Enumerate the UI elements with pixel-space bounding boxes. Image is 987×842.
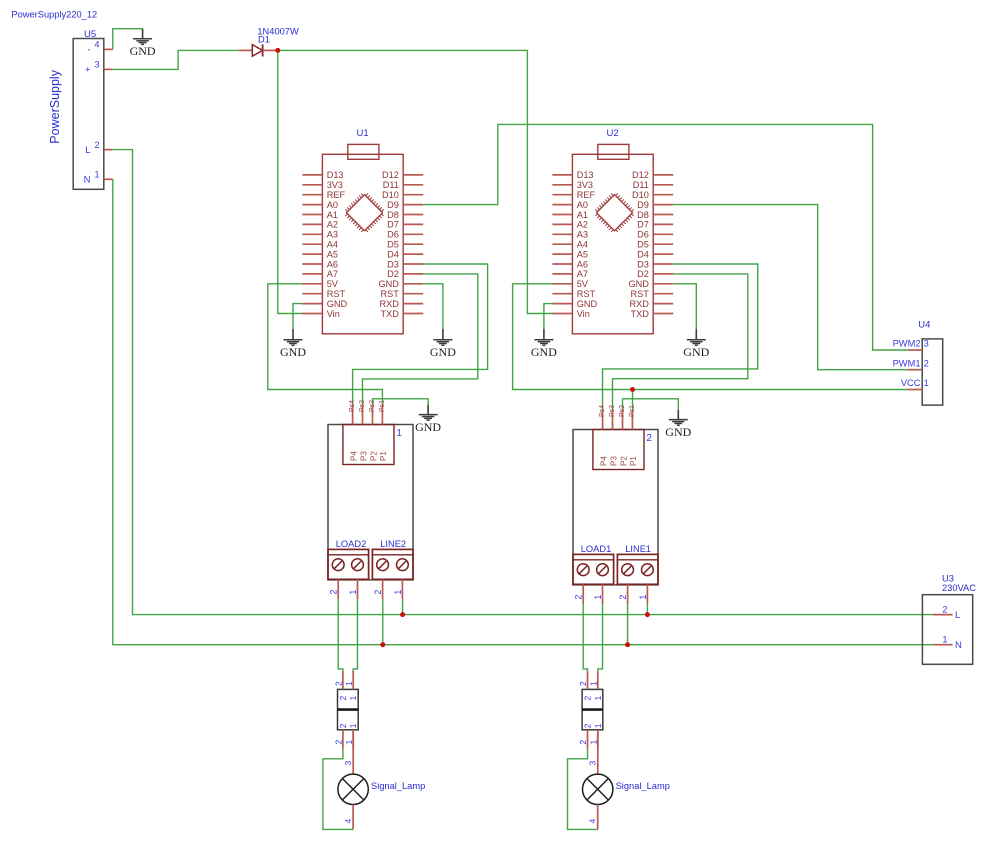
svg-text:GND: GND: [430, 345, 456, 359]
svg-text:1: 1: [393, 590, 403, 595]
svg-text:D9: D9: [637, 200, 649, 210]
svg-text:GND: GND: [665, 425, 691, 439]
svg-text:2: 2: [338, 723, 348, 728]
svg-text:2: 2: [94, 140, 99, 150]
svg-text:A2: A2: [577, 220, 588, 230]
svg-text:3: 3: [588, 761, 598, 766]
svg-text:1: 1: [942, 635, 947, 645]
wire U2 5V to U4 VCC: [513, 284, 908, 390]
wire module2 Ps2 to ground: [623, 399, 679, 410]
wire U1 D2 to module1 Ps3: [363, 274, 478, 405]
ground GND5 (under U2 right): [683, 329, 709, 359]
junction dot LINE2.1 on L: [400, 612, 405, 617]
svg-text:A6: A6: [577, 259, 588, 269]
svg-text:2: 2: [646, 433, 652, 444]
svg-text:P3: P3: [359, 451, 368, 461]
svg-text:1: 1: [348, 696, 358, 701]
relay module 1: [328, 400, 413, 599]
svg-text:PWM2: PWM2: [893, 339, 921, 349]
wire D1 cathode to U2 Vin: [278, 50, 553, 313]
svg-text:2: 2: [924, 358, 929, 368]
svg-text:2: 2: [578, 681, 588, 686]
wire U2 D9 to U4 PWM1: [673, 205, 908, 370]
svg-text:4: 4: [343, 819, 353, 824]
wire U5 pin3 (+) to diode D1 anode: [113, 50, 239, 69]
junction dot LINE1.2 on N: [625, 642, 630, 647]
svg-text:D5: D5: [387, 240, 399, 250]
svg-text:RXD: RXD: [379, 299, 399, 309]
svg-text:L: L: [85, 145, 90, 156]
svg-text:A1: A1: [577, 210, 588, 220]
wire U1 D3 to module1 Ps4: [353, 264, 488, 405]
svg-text:2: 2: [583, 696, 593, 701]
wire U2 GND(right) to ground: [673, 284, 696, 329]
svg-text:RST: RST: [327, 289, 346, 299]
svg-text:TXD: TXD: [631, 309, 650, 319]
svg-text:2: 2: [578, 740, 588, 745]
svg-text:D11: D11: [633, 180, 649, 190]
svg-text:A0: A0: [327, 200, 338, 210]
svg-text:1: 1: [348, 590, 358, 595]
svg-text:U5: U5: [84, 29, 96, 40]
svg-text:3: 3: [94, 60, 99, 70]
connector U4: [893, 319, 943, 405]
svg-text:2: 2: [329, 590, 339, 595]
svg-text:-: -: [87, 45, 90, 56]
svg-text:D13: D13: [577, 170, 594, 180]
svg-text:N: N: [955, 640, 962, 651]
svg-text:A6: A6: [327, 259, 338, 269]
svg-text:D8: D8: [637, 210, 649, 220]
fuse block 2: [578, 671, 603, 750]
svg-text:1: 1: [924, 378, 929, 388]
diode D1 1N4007W: [239, 44, 278, 56]
svg-text:3: 3: [924, 339, 929, 349]
svg-text:GND: GND: [327, 299, 348, 309]
svg-text:A5: A5: [327, 249, 338, 259]
svg-text:Ps4: Ps4: [599, 405, 606, 417]
svg-text:D3: D3: [387, 259, 399, 269]
svg-text:VCC: VCC: [901, 378, 921, 388]
svg-text:A5: A5: [577, 249, 588, 259]
svg-text:1: 1: [94, 170, 99, 180]
svg-text:U2: U2: [607, 128, 619, 139]
wire U5 L to U3 L: [113, 150, 933, 615]
junction dot VCC at module2 Ps1: [630, 387, 635, 392]
wire module2 LINE1.2 to N: [627, 604, 629, 645]
svg-text:REF: REF: [327, 190, 346, 200]
svg-text:RXD: RXD: [629, 299, 649, 309]
connector U3: [922, 574, 976, 665]
power supply U5 (PowerSupply220_12): [48, 29, 113, 189]
wire module1 LINE2.2 to N: [382, 599, 384, 645]
svg-text:REF: REF: [577, 190, 596, 200]
svg-text:D2: D2: [387, 269, 399, 279]
svg-text:D10: D10: [632, 190, 649, 200]
svg-text:D4: D4: [637, 249, 649, 259]
svg-text:D2: D2: [637, 269, 649, 279]
arduino nano U1: [302, 128, 423, 334]
svg-text:A7: A7: [327, 269, 338, 279]
svg-text:GND: GND: [378, 279, 399, 289]
signal lamp 2: [583, 730, 670, 830]
junction dot at D1 cathode: [275, 48, 280, 53]
ground GND3 (under U1 right): [430, 329, 456, 359]
junction dot LINE2.2 on N: [380, 642, 385, 647]
svg-text:1: 1: [344, 681, 354, 686]
svg-text:D12: D12: [632, 170, 649, 180]
wire U1 GND(right) to ground: [423, 284, 443, 329]
svg-text:U4: U4: [918, 319, 930, 330]
svg-text:RST: RST: [631, 289, 650, 299]
wire module1 LOAD2.2 to fuse1: [338, 599, 343, 671]
junction dot LINE1.1 on L: [645, 612, 650, 617]
svg-text:Ps2: Ps2: [369, 400, 376, 412]
wire VCC drop to module2 Ps1: [632, 390, 634, 411]
svg-text:N: N: [84, 175, 91, 186]
svg-text:D10: D10: [382, 190, 399, 200]
svg-text:Vin: Vin: [327, 309, 340, 319]
svg-text:D9: D9: [387, 200, 399, 210]
wire module1 LOAD2.1 to fuse1: [353, 599, 357, 671]
svg-text:LOAD2: LOAD2: [336, 539, 367, 549]
svg-text:A2: A2: [327, 220, 338, 230]
svg-text:D6: D6: [387, 230, 399, 240]
wire module2 LINE1.1 to L: [646, 604, 648, 615]
svg-text:1: 1: [638, 595, 648, 600]
wire module1 LINE2.1 to L: [402, 599, 404, 615]
svg-text:1: 1: [593, 723, 603, 728]
svg-text:GND: GND: [577, 299, 598, 309]
svg-text:2: 2: [373, 590, 383, 595]
svg-text:P1: P1: [629, 456, 638, 466]
svg-text:P2: P2: [619, 456, 628, 466]
wire U2 D2 to module2 Ps3: [613, 274, 748, 410]
svg-text:U3: U3: [942, 574, 954, 584]
svg-text:D7: D7: [637, 220, 649, 230]
wire U5 N to U3 N: [113, 179, 933, 644]
svg-text:D3: D3: [637, 259, 649, 269]
wire fuse1 pin2 to lamp1 pin4: [323, 749, 353, 829]
svg-text:Ps1: Ps1: [379, 400, 386, 412]
svg-text:RST: RST: [577, 289, 596, 299]
svg-text:Ps4: Ps4: [349, 400, 356, 412]
wire module2 LOAD1.1 to fuse2: [598, 604, 603, 671]
svg-text:1: 1: [593, 595, 603, 600]
svg-text:3V3: 3V3: [327, 180, 343, 190]
svg-text:A4: A4: [327, 240, 338, 250]
wire U2 D3 to module2 Ps4: [603, 264, 758, 410]
ground GND4 (under U2 left): [531, 329, 557, 359]
svg-text:LINE1: LINE1: [625, 544, 651, 554]
svg-text:1: 1: [344, 740, 354, 745]
svg-text:RST: RST: [381, 289, 400, 299]
svg-text:A1: A1: [327, 210, 338, 220]
svg-text:4: 4: [94, 40, 99, 50]
svg-text:4: 4: [588, 819, 598, 824]
svg-text:A7: A7: [577, 269, 588, 279]
svg-text:2: 2: [334, 681, 344, 686]
label 1N4007W: [257, 27, 299, 37]
wire U1 GND(left) to ground: [293, 304, 302, 329]
svg-text:U1: U1: [357, 128, 369, 139]
svg-text:PowerSupply220_12: PowerSupply220_12: [11, 10, 97, 20]
svg-text:230VAC: 230VAC: [942, 583, 976, 593]
svg-text:D11: D11: [383, 180, 399, 190]
wire D1 cathode to U1 Vin: [278, 50, 303, 313]
svg-text:PowerSupply: PowerSupply: [48, 69, 62, 143]
svg-text:D5: D5: [637, 240, 649, 250]
svg-text:D12: D12: [382, 170, 399, 180]
svg-text:2: 2: [338, 696, 348, 701]
svg-text:2: 2: [583, 723, 593, 728]
svg-text:5V: 5V: [577, 279, 589, 289]
svg-text:3: 3: [343, 761, 353, 766]
svg-text:D8: D8: [387, 210, 399, 220]
svg-text:GND: GND: [280, 345, 306, 359]
svg-text:1: 1: [396, 428, 402, 439]
wire U5 pin4 to GND1: [113, 29, 143, 50]
signal lamp 1: [338, 730, 425, 830]
svg-text:1: 1: [348, 723, 358, 728]
wire module2 LOAD1.2 to fuse2: [583, 604, 587, 671]
svg-text:P4: P4: [599, 456, 608, 466]
svg-text:Ps3: Ps3: [609, 405, 616, 417]
svg-text:Ps2: Ps2: [619, 405, 626, 417]
wire U2 GND(left) to ground: [544, 304, 553, 329]
ground GND7 (right of module2): [665, 410, 691, 439]
fuse block 1: [334, 671, 359, 750]
svg-text:L: L: [955, 610, 960, 621]
svg-text:Ps1: Ps1: [629, 405, 636, 417]
arduino nano U2: [552, 128, 673, 334]
svg-text:2: 2: [942, 605, 947, 615]
svg-text:A3: A3: [577, 230, 588, 240]
svg-text:A0: A0: [577, 200, 588, 210]
svg-text:2: 2: [334, 740, 344, 745]
wire module1 Ps2 to ground: [373, 399, 429, 405]
svg-text:LOAD1: LOAD1: [581, 544, 612, 554]
wire fuse2 pin2 to lamp2 pin4: [568, 749, 598, 829]
svg-text:P3: P3: [609, 456, 618, 466]
svg-text:PWM1: PWM1: [893, 358, 921, 368]
wire U1 D9 to U4 PWM2: [423, 124, 908, 350]
ground GND1: [130, 29, 156, 58]
svg-text:TXD: TXD: [381, 309, 400, 319]
svg-text:D4: D4: [387, 249, 399, 259]
ground GND2 (under U1 left): [280, 329, 306, 359]
svg-text:GND: GND: [628, 279, 649, 289]
svg-text:A3: A3: [327, 230, 338, 240]
svg-text:1: 1: [588, 740, 598, 745]
svg-text:A4: A4: [577, 240, 588, 250]
svg-text:P2: P2: [369, 451, 378, 461]
svg-text:5V: 5V: [327, 279, 339, 289]
svg-text:+: +: [85, 65, 91, 76]
label PowerSupply220_12: [11, 10, 97, 20]
svg-text:1: 1: [593, 696, 603, 701]
label D1: [258, 34, 270, 44]
ground GND6 (right of module1): [415, 405, 441, 434]
svg-text:Vin: Vin: [577, 309, 590, 319]
svg-text:D6: D6: [637, 230, 649, 240]
svg-text:Ps3: Ps3: [359, 400, 366, 412]
svg-text:D1: D1: [258, 34, 270, 44]
svg-text:GND: GND: [683, 345, 709, 359]
wire U1 5V to module1 Ps1: [268, 284, 383, 405]
svg-text:3V3: 3V3: [577, 180, 593, 190]
svg-text:LINE2: LINE2: [380, 539, 406, 549]
svg-text:2: 2: [574, 595, 584, 600]
svg-text:P1: P1: [379, 451, 388, 461]
relay module 2: [573, 405, 658, 604]
svg-text:GND: GND: [130, 44, 156, 58]
svg-text:1: 1: [588, 681, 598, 686]
svg-text:GND: GND: [415, 420, 441, 434]
svg-text:D7: D7: [387, 220, 399, 230]
svg-text:D13: D13: [327, 170, 344, 180]
svg-text:P4: P4: [349, 451, 358, 461]
svg-text:Signal_Lamp: Signal_Lamp: [616, 781, 670, 791]
svg-text:2: 2: [618, 595, 628, 600]
svg-text:GND: GND: [531, 345, 557, 359]
svg-text:Signal_Lamp: Signal_Lamp: [371, 781, 425, 791]
